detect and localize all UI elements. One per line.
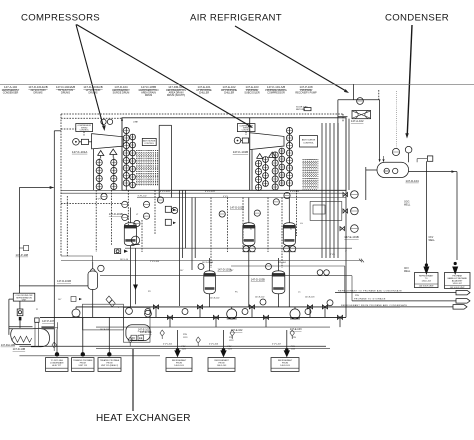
- instrument bubbles column (right train col3): [272, 152, 278, 190]
- label HEAT EXCHANGER: [96, 413, 191, 424]
- svg-text:DRUMS: DRUMS: [89, 91, 98, 94]
- wire cooler outlet down: [349, 119, 377, 200]
- svg-text:ANTI SURGE: ANTI SURGE: [302, 138, 316, 141]
- small bubbles pair right-bottom of box: [317, 270, 329, 276]
- dashed lead left x67: [66, 196, 68, 256]
- label 147-K-101A: [72, 150, 87, 154]
- header y327: [96, 326, 330, 328]
- surge drum 147-D-104: [377, 162, 409, 177]
- bubble right of vessel F: [98, 265, 104, 271]
- black arrow into propane make-up box: [452, 262, 458, 275]
- svg-text:147-E-101B: 147-E-101B: [344, 235, 359, 239]
- black arrow into refrigerant box: [423, 263, 429, 275]
- svg-text:145-D-107: 145-D-107: [452, 283, 462, 285]
- extra long line y348.6: [96, 348, 330, 350]
- wire vessel D riser: [209, 258, 211, 307]
- dashed instrument leads middle band: [96, 190, 296, 268]
- connector box L2: [72, 358, 95, 372]
- instrument bubbles middle band: [101, 192, 290, 226]
- dashed stub near cooler right: [378, 90, 380, 100]
- svg-text:CONTROL: CONTROL: [80, 130, 89, 132]
- label 147-D-103A: [218, 268, 232, 272]
- svg-text:TREATED PROPANE: TREATED PROPANE: [100, 359, 120, 362]
- svg-text:CONDENSER: CONDENSER: [385, 13, 449, 24]
- wire vessel E riser: [278, 258, 280, 307]
- underlined labels bottom band: [140, 328, 302, 334]
- label AIR REFRIGERANT: [190, 13, 282, 24]
- svg-text:REFRIGERANT: REFRIGERANT: [172, 359, 187, 362]
- leader arrow to compressor K-101B: [77, 25, 254, 129]
- instrument bubbles column (right train col4): [279, 148, 285, 186]
- svg-text:LG: LG: [244, 223, 247, 225]
- svg-text:UNIT 115 (PAGE 2): UNIT 115 (PAGE 2): [101, 364, 119, 367]
- level bubbles right column: [351, 191, 359, 233]
- svg-text:WELL: WELL: [404, 204, 411, 206]
- horizontal border rule: [0, 83, 474, 85]
- svg-text:CONTROL: CONTROL: [303, 142, 314, 144]
- svg-text:DRUMS: DRUMS: [61, 91, 70, 94]
- label 147-P-108: [16, 253, 29, 257]
- small instrument box + arrow left of vessels: [115, 249, 128, 254]
- label 147-D-101B row2: [57, 279, 71, 283]
- signal dot-grid matrix (right): [303, 159, 318, 189]
- internal discharge lines left train: [159, 125, 171, 197]
- svg-text:147-D-101B: 147-D-101B: [57, 279, 71, 283]
- svg-text:146-D-103: 146-D-103: [174, 365, 184, 367]
- box refrigerant to 146-D-103: [415, 273, 439, 288]
- wire vessel C riser: [288, 198, 290, 307]
- svg-text:CHILLER: CHILLER: [224, 91, 235, 94]
- wire vessel F riser: [92, 262, 94, 317]
- hatched flange block: [41, 326, 54, 329]
- svg-text:3"-PL-102: 3"-PL-102: [138, 196, 148, 198]
- pipe refrigerant to propane and condensate: [335, 289, 470, 294]
- wire flange to dot valve: [55, 322, 58, 329]
- signal dot-grid matrix (left): [136, 150, 160, 186]
- svg-text:147-D-10B: 147-D-10B: [13, 347, 26, 351]
- leader arrow condenser: [405, 25, 412, 139]
- drop wires + black triangle arrows into middle boxes: [174, 330, 290, 357]
- label 147-DH-10B: [1, 343, 16, 347]
- vessel 147-D-103B (row2 mid-right): [272, 268, 285, 293]
- label vess well A: [404, 202, 411, 207]
- svg-text:6"-PL-1021: 6"-PL-1021: [160, 191, 171, 193]
- svg-text:CONTROL: CONTROL: [144, 143, 155, 145]
- wire vessel A riser: [129, 208, 131, 307]
- dashed battery-limit boundary: [61, 114, 343, 256]
- svg-text:PSV: PSV: [355, 295, 360, 297]
- bubbles on headers: [145, 299, 333, 315]
- wire column risers right train: [259, 127, 290, 190]
- instrument bubbles column (left train col2): [111, 159, 117, 189]
- label 147-D-104: [406, 179, 420, 183]
- feed drop wire with flow arrow: [133, 248, 138, 304]
- kettle package box B: [123, 307, 150, 342]
- svg-text:147-D-103B: 147-D-103B: [251, 278, 265, 282]
- svg-text:CONDENSATE: CONDENSATE: [50, 362, 64, 365]
- motor M (left): [73, 139, 89, 146]
- wire left vertical x19: [18, 188, 20, 294]
- wire drum outlet header: [409, 170, 457, 173]
- svg-text:DRUM (SOUTH): DRUM (SOUTH): [167, 94, 185, 97]
- kettle chiller 147-E-101 (heat exchanger pointed): [126, 325, 150, 341]
- drop wires + black valve dots into left boxes: [55, 317, 112, 356]
- svg-text:CONTROL: CONTROL: [242, 130, 251, 132]
- instrument package box (right mid): [310, 202, 342, 221]
- wire cold box bottom drop: [19, 301, 21, 309]
- svg-text:AIR REFRIGERANT: AIR REFRIGERANT: [190, 13, 282, 24]
- svg-text:147-D-102B: 147-D-102B: [230, 206, 244, 210]
- svg-text:1": 1": [345, 251, 347, 253]
- instrument package box A: [83, 304, 124, 330]
- svg-text:WELL: WELL: [429, 240, 436, 242]
- wire cooler inlet loop: [338, 100, 385, 200]
- pump under vessel row1 left: [131, 236, 139, 244]
- svg-text:TO DRY GAS: TO DRY GAS: [51, 359, 64, 362]
- small square instrument left: [17, 309, 23, 328]
- vessel 147-D-103A (row2 mid-left): [204, 268, 216, 293]
- wire rule to cooler loop: [353, 84, 355, 99]
- label 147-D-103B: [251, 278, 265, 282]
- compressor K-101B: [250, 133, 284, 150]
- vessel 147-D-102A (row1 mid): [243, 220, 255, 245]
- leader arrow air refrigerant condenser inlet: [235, 26, 349, 93]
- header propane liquid y317: [40, 316, 346, 318]
- svg-text:CKV: CKV: [404, 268, 409, 270]
- svg-text:CONDENSER: CONDENSER: [3, 91, 19, 94]
- instrument square right of drum: [417, 156, 433, 162]
- label 147-E-101B: [344, 235, 359, 239]
- pipe refrigerant from propane and condensate label: [341, 304, 467, 309]
- wire vessel F suction: [19, 285, 88, 287]
- svg-text:XPL-104: XPL-104: [278, 262, 287, 264]
- small box with arrow left: [71, 297, 82, 302]
- svg-text:TREATED PROPANE: TREATED PROPANE: [73, 359, 93, 362]
- svg-text:REFRIGERANT: REFRIGERANT: [278, 359, 293, 362]
- svg-text:4"-PL-105: 4"-PL-105: [163, 344, 173, 346]
- label 147-P-107: [42, 319, 55, 323]
- pumps under vessel B: [243, 246, 255, 252]
- svg-text:147-E-103: 147-E-103: [290, 328, 302, 331]
- svg-text:147-D-103A: 147-D-103A: [202, 261, 213, 264]
- svg-text:RECOVERY PUMP: RECOVERY PUMP: [295, 91, 317, 94]
- svg-text:PSV: PSV: [292, 337, 297, 339]
- pump P (center-bottom 1): [227, 307, 237, 319]
- label 147-K-101B: [233, 150, 248, 154]
- connector box M1: [166, 358, 192, 372]
- svg-text:PROPANE TO STORAGE: PROPANE TO STORAGE: [354, 298, 386, 301]
- equipment tag row: [2, 85, 317, 97]
- wire right vertical x346: [345, 190, 347, 317]
- svg-text:LG: LG: [300, 223, 303, 225]
- svg-text:SURGE DRUM: SURGE DRUM: [113, 91, 130, 94]
- wire left crossover with arrow: [19, 186, 53, 189]
- wire column risers left train: [99, 127, 132, 190]
- svg-text:2": 2": [118, 307, 120, 309]
- svg-text:REFRIGERANT TO PROPANE AND CON: REFRIGERANT TO PROPANE AND CONDENSATE: [338, 289, 402, 292]
- inline relief on left line: [19, 246, 28, 251]
- svg-text:PSV: PSV: [183, 334, 188, 336]
- controller box: anti surge control (right): [300, 136, 318, 147]
- gate valves left of bubbles: [340, 193, 348, 231]
- label 147-A-102: [351, 119, 364, 123]
- header y346: [19, 345, 326, 347]
- bubble at vessel D top: [198, 264, 204, 270]
- svg-text:147-E-102: 147-E-102: [210, 298, 220, 300]
- motor M (right): [234, 137, 248, 144]
- svg-text:HEAT EXCHANGER: HEAT EXCHANGER: [96, 413, 191, 424]
- svg-text:LINE: LINE: [133, 121, 138, 123]
- svg-text:PSV: PSV: [229, 337, 234, 339]
- svg-text:DRUM: DRUM: [145, 94, 152, 97]
- main suction header y307: [76, 306, 400, 308]
- relief valve hats under K-101B: [257, 152, 276, 159]
- kettle heat exchanger 147-D-10B with coil: [9, 327, 50, 347]
- svg-text:146-D-103: 146-D-103: [217, 365, 227, 367]
- box propane make-up: [445, 273, 471, 290]
- svg-text:DRUMS: DRUMS: [34, 91, 43, 94]
- psv diamond pair mid bottom: [106, 296, 115, 307]
- header y355.8: [19, 355, 160, 357]
- svg-text:147-L-10: 147-L-10: [120, 259, 129, 261]
- dotted signal line down to drum bubble: [396, 91, 398, 148]
- controller box: speed control (right): [237, 124, 255, 132]
- svg-text:147-D-104: 147-D-104: [406, 179, 420, 183]
- svg-text:147-E-103: 147-E-103: [305, 297, 315, 299]
- svg-text:147-E-102: 147-E-102: [255, 297, 265, 299]
- misc tiny pipe labels: [36, 191, 360, 345]
- bubbles above kettle: [126, 308, 152, 318]
- compressor K-101A: [89, 134, 124, 149]
- leader line heat exchanger: [132, 349, 134, 411]
- pipe propane to storage: [352, 298, 470, 303]
- note LINE on box top: [133, 121, 138, 123]
- instrument bubbles column (left train col1): [96, 159, 102, 189]
- wire cold box left drop: [9, 299, 13, 335]
- connector box L1: [46, 358, 69, 372]
- dip tube: [35, 318, 39, 347]
- vertical arrow on box left edge: [121, 118, 123, 121]
- svg-text:CKV: CKV: [429, 237, 434, 239]
- svg-text:2"-PL-104: 2"-PL-104: [150, 261, 160, 263]
- wire vessel B riser: [248, 198, 250, 307]
- vessel 147-D-102B (row1 right): [283, 220, 295, 245]
- svg-text:147-DH-10B: 147-DH-10B: [1, 343, 16, 347]
- label COMPRESSORS: [21, 13, 100, 24]
- wire left suction crossover: [61, 256, 93, 262]
- svg-text:145 SOUR UNIT: 145 SOUR UNIT: [450, 287, 466, 289]
- svg-text:146-D-103: 146-D-103: [280, 365, 290, 367]
- vessel 147-D-101B (row2 far left, dome): [88, 269, 98, 290]
- svg-text:147-E-102: 147-E-102: [231, 329, 243, 332]
- wire to refrigerant box: [425, 161, 427, 264]
- controller box: anti surge control (left): [142, 138, 156, 145]
- controller box: compressor speed control (left): [76, 124, 93, 132]
- svg-text:147-K-101A: 147-K-101A: [72, 150, 87, 154]
- tag label middle band right: [230, 206, 244, 210]
- wire to propane make-up box: [456, 172, 458, 260]
- box divider between trains: [249, 118, 251, 191]
- svg-text:COMPRESSORS: COMPRESSORS: [21, 13, 100, 24]
- svg-text:COMPRESSOR: COMPRESSOR: [267, 91, 285, 94]
- signal bundle down to bottom row (triple): [179, 190, 185, 306]
- vessel 147-D-101A (row1 left): [124, 220, 136, 245]
- pumps under vessel C: [284, 246, 296, 252]
- svg-text:GGG: GGG: [404, 202, 410, 204]
- short riser ticks on headers: [156, 307, 340, 327]
- wire band extra header y193: [61, 192, 343, 194]
- svg-text:EE: EE: [139, 336, 143, 340]
- svg-text:6"-PL-1022: 6"-PL-1022: [205, 191, 216, 193]
- signal line bundle (right of train B): [322, 123, 338, 258]
- box cold round off refrigeration unit: [13, 293, 35, 301]
- svg-text:147-A-102: 147-A-102: [351, 119, 364, 123]
- label CONDENSER: [385, 13, 449, 24]
- air cooler 147-A-102 (condenser): [352, 111, 371, 119]
- instrument bubbles above drum: [392, 146, 412, 162]
- inline valves on suction header: [153, 305, 342, 320]
- svg-text:147-D-101B: 147-D-101B: [109, 212, 123, 216]
- small psv flags bottom: [52, 330, 294, 351]
- svg-text:ALKY PIT: ALKY PIT: [52, 364, 62, 367]
- svg-text:6"-PL-103: 6"-PL-103: [290, 191, 300, 193]
- svg-text:UNIT 115: UNIT 115: [79, 365, 88, 367]
- svg-text:147-P-107: 147-P-107: [42, 319, 55, 323]
- svg-text:147-K-101B: 147-K-101B: [233, 150, 248, 154]
- label crit well B: [429, 237, 436, 242]
- connector box L3: [98, 358, 121, 372]
- wire liquid header y248.2: [125, 247, 352, 249]
- label 147-D-10B: [13, 347, 26, 351]
- connector box M2: [208, 358, 235, 372]
- label well C: [404, 268, 411, 273]
- bubble at vessel E top: [266, 264, 272, 270]
- wire long horizontal y260.5: [61, 259, 364, 263]
- bubbles on box top left: [101, 119, 113, 124]
- svg-text:147-E-101: 147-E-101: [138, 328, 150, 331]
- instrument bubble above cooler: [357, 98, 364, 105]
- wire mid horizontal y266: [231, 266, 345, 293]
- svg-text:REFRIGERANT: REFRIGERANT: [214, 359, 229, 362]
- wire secondary header: [137, 197, 346, 199]
- hand valve squares middle band: [165, 206, 176, 225]
- instrument bubbles column inside box (left train col4): [130, 134, 136, 188]
- relief valve hats under K-101A: [98, 149, 117, 159]
- svg-text:SUBCOOLER: SUBCOOLER: [244, 91, 260, 94]
- leader arrow to compressor K-101A: [76, 25, 106, 132]
- signal pair down to vessel D: [192, 198, 195, 271]
- pump P (center-bottom 2): [290, 307, 300, 319]
- dashed battery-limit boundary inner line: [61, 118, 246, 135]
- svg-text:146-D-103: 146-D-103: [421, 280, 431, 282]
- instrument bubbles column (right train col1): [255, 160, 261, 190]
- tag label middle band left: [109, 212, 123, 216]
- pump 147-P-108 on header: [72, 307, 80, 317]
- svg-text:4"-PL-106: 4"-PL-106: [209, 344, 219, 346]
- svg-text:147-E-101: 147-E-101: [100, 329, 110, 331]
- svg-text:WELL: WELL: [404, 271, 411, 273]
- wire mid horizontal y275.7: [100, 276, 352, 301]
- instrument bubbles column (right train col5): [286, 127, 292, 186]
- instrument bubbles column inside box (left train col3): [123, 127, 129, 186]
- svg-text:CHILLER: CHILLER: [199, 91, 210, 94]
- svg-text:FF: FF: [132, 336, 136, 340]
- wire box bottom header: [61, 189, 343, 191]
- wire left vertical x54: [54, 131, 61, 346]
- note sour gas return: [296, 106, 311, 112]
- label 147-E-101 kettle: [138, 328, 150, 331]
- wire compressor suction drops: [94, 149, 253, 190]
- svg-text:146 SOUR UNIT: 146 SOUR UNIT: [419, 286, 435, 288]
- main package box (spans both trains): [122, 118, 346, 191]
- svg-text:147-P-108: 147-P-108: [16, 253, 29, 257]
- instrument bubbles column (right train col2): [263, 157, 269, 187]
- connector box M3: [271, 358, 299, 372]
- psv notes near middle drops: [182, 346, 296, 350]
- svg-text:4"-PL-107: 4"-PL-107: [272, 344, 282, 346]
